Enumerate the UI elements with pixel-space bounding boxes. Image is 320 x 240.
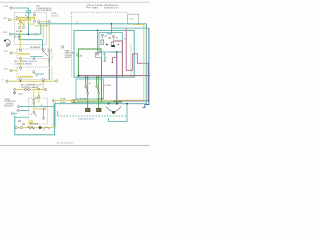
yellow bus Y2 xyxy=(16,89,45,91)
pin circle xyxy=(43,117,45,119)
resistor zigzag xyxy=(28,126,35,129)
switch pin 2 xyxy=(96,86,98,88)
svg-text:S: S xyxy=(31,114,32,116)
Y1 right connector xyxy=(55,80,57,82)
A/C compressor relay box xyxy=(99,33,122,53)
pigtail coil xyxy=(37,88,40,90)
wire teal riser to main xyxy=(37,24,41,34)
svg-text:MODULE: MODULE xyxy=(5,106,14,108)
teal drop to 2b xyxy=(48,52,50,68)
pin circle bottom xyxy=(42,78,44,80)
Y1 left connector xyxy=(6,80,8,82)
svg-text:C176: C176 xyxy=(3,18,7,20)
yellow long bottom wire xyxy=(55,100,144,128)
yellow drop 2 xyxy=(38,90,40,104)
teal vertical into connector xyxy=(97,30,99,52)
switch green wire 2b xyxy=(98,77,100,108)
svg-text:87: 87 xyxy=(116,37,118,39)
wire color speck labels xyxy=(14,31,126,116)
ground symbol 2 xyxy=(97,108,101,111)
svg-text:BLOCK: BLOCK xyxy=(52,15,59,17)
junction dots on Y1 xyxy=(20,80,22,82)
svg-text:FUSE BLOCK: FUSE BLOCK xyxy=(104,8,118,10)
header circled numeral xyxy=(87,5,90,8)
relay dark contact xyxy=(112,45,115,47)
connector circle left xyxy=(10,52,12,54)
svg-text:C176: C176 xyxy=(3,32,7,34)
svg-text:DK GRN: DK GRN xyxy=(97,99,104,101)
relay switch blade xyxy=(43,51,48,56)
switch blade xyxy=(34,73,38,77)
yellow drop from valve to relay xyxy=(19,30,21,49)
dashed teal hidden wire xyxy=(57,111,59,116)
relay 2a dashed box xyxy=(17,49,52,59)
switch green wire 1b xyxy=(87,77,89,108)
purple wire junction dot xyxy=(116,51,118,53)
teal drop from main wire xyxy=(111,24,113,34)
teal pin drop xyxy=(104,52,106,60)
junction dot purple xyxy=(116,103,118,105)
connector labels left column xyxy=(2,6,8,81)
PCM bottom pin dots xyxy=(85,77,86,78)
compressor control valve dashed box xyxy=(15,12,47,44)
purple wire vertical xyxy=(116,52,118,104)
yellow bus Y1 xyxy=(8,80,55,82)
junction dot xyxy=(28,33,30,35)
pressure switch box xyxy=(76,79,104,99)
connector circle xyxy=(38,21,40,23)
teal branch wire C xyxy=(112,27,149,29)
yellow jog wire xyxy=(35,25,50,27)
small ground glyph xyxy=(13,93,16,95)
switch green wire 2a xyxy=(96,77,98,86)
Y1-Y2 link xyxy=(42,81,44,89)
teal lower branch wire xyxy=(19,34,42,50)
junction dot xyxy=(111,23,113,25)
svg-text:G109 G110 S171: G109 G110 S171 xyxy=(78,119,95,121)
yellow drop from long wire xyxy=(53,127,55,129)
teal interior wire xyxy=(16,116,29,118)
svg-text:LO PRES: LO PRES xyxy=(104,85,111,87)
yellow stub xyxy=(12,70,17,72)
page top border xyxy=(0,1,150,3)
svg-text:LT GRN: LT GRN xyxy=(60,99,67,101)
pin circle xyxy=(19,49,21,51)
pin circle xyxy=(34,20,36,22)
connector pin left xyxy=(8,19,10,21)
svg-text:C129: C129 xyxy=(4,69,8,71)
Y2 left circle xyxy=(13,88,15,90)
svg-text:A/C Circuit Diagram: A/C Circuit Diagram xyxy=(57,142,73,145)
green hat wire xyxy=(78,49,101,76)
purple wire horizontal xyxy=(114,100,149,102)
svg-text:DK GRN/WHT: DK GRN/WHT xyxy=(30,47,40,49)
fuse block dashed top edge xyxy=(71,11,127,13)
yellow parallel drop xyxy=(52,100,54,127)
teal stub b xyxy=(19,109,29,111)
switch blade 2 xyxy=(97,87,99,93)
pin circle xyxy=(33,14,35,16)
relay switch pin xyxy=(112,35,114,37)
yellow drops into module xyxy=(33,90,35,104)
junction dot on PCM top xyxy=(97,30,99,32)
switch pin 2b xyxy=(98,92,100,94)
teal internal drop xyxy=(43,109,45,118)
pin circle 2a bottom xyxy=(20,58,22,60)
junction dot xyxy=(108,103,110,105)
relay interior specks xyxy=(106,44,108,45)
yellow stub xyxy=(12,52,17,54)
svg-text:C2: C2 xyxy=(48,61,50,63)
cup arc component xyxy=(106,107,121,112)
pin circle xyxy=(33,102,35,104)
wire teal from C1 xyxy=(12,8,28,11)
compressor pin xyxy=(6,43,8,45)
valve internal contact xyxy=(20,22,24,26)
green internal 2b xyxy=(48,68,50,80)
switch blade 1 xyxy=(86,87,88,93)
switch pin 1b xyxy=(87,92,89,94)
pin circle xyxy=(19,67,21,69)
pin circle 2a bottom b xyxy=(33,58,35,60)
in-line connector on green xyxy=(72,100,75,103)
svg-text:YEL: YEL xyxy=(35,98,38,100)
module yellow internal v xyxy=(33,103,35,112)
wire far right rail xyxy=(143,28,149,108)
pin circle xyxy=(23,27,25,29)
teal stub c xyxy=(14,113,17,115)
relay pin stub xyxy=(107,33,112,35)
junction dot xyxy=(53,100,55,102)
relay pin stub 2 xyxy=(113,38,115,42)
svg-text:VALVE: VALVE xyxy=(65,56,72,59)
teal connector circle c xyxy=(11,113,13,115)
pin circle xyxy=(23,123,25,125)
cup dark detail xyxy=(112,111,115,114)
valve yellow cross xyxy=(28,23,34,25)
relay 2b dashed box xyxy=(17,67,52,80)
svg-text:BLOWER: BLOWER xyxy=(30,124,39,126)
svg-text:DK BLU: DK BLU xyxy=(60,102,67,104)
yellow drop wire 2 xyxy=(48,23,50,50)
svg-text:86: 86 xyxy=(105,36,107,38)
yellow fuse exit wire xyxy=(133,25,144,101)
connector C1 top left xyxy=(10,7,12,9)
valve yellow mid vertical xyxy=(23,20,25,28)
dark element xyxy=(39,126,42,128)
pin circle bottom xyxy=(19,78,21,80)
svg-text:CONTROL VALVE: CONTROL VALVE xyxy=(21,86,39,89)
connector circle xyxy=(48,21,50,23)
module yellow lower cluster xyxy=(29,121,34,125)
control head inner yellow wire xyxy=(16,127,53,129)
splice dot xyxy=(112,62,113,63)
Y2 right circle xyxy=(45,88,47,90)
pin row bottom xyxy=(19,27,21,29)
green wire long vertical xyxy=(101,58,103,102)
main teal wire across top xyxy=(38,23,146,25)
pin circle xyxy=(48,49,50,51)
teal stub at relay bottom xyxy=(110,51,122,53)
switch green wire 1a xyxy=(85,77,87,86)
in-line connector on yellow pair xyxy=(39,21,49,23)
leader line xyxy=(33,10,37,13)
valve internal yellow wire xyxy=(17,17,35,19)
teal internal wire xyxy=(36,73,44,75)
arc element xyxy=(44,127,50,130)
svg-text:C1: C1 xyxy=(76,22,78,24)
valve yellow branch vertical xyxy=(19,18,21,28)
svg-text:RELAY: RELAY xyxy=(76,55,83,58)
yellow drop wire 1 xyxy=(42,22,44,39)
pin circle xyxy=(42,49,44,51)
fuse box (top right) xyxy=(128,14,139,24)
svg-text:S102: S102 xyxy=(19,94,23,96)
in-line connector xyxy=(35,33,37,35)
pin circle xyxy=(19,120,21,122)
relay pin stub 1 xyxy=(101,36,103,40)
connector circle left xyxy=(10,69,12,71)
pin circle xyxy=(20,127,22,129)
relay coil body xyxy=(101,40,104,45)
junction dot xyxy=(126,103,128,105)
valve internal yellow wire 2 xyxy=(17,19,32,21)
teal wire through module xyxy=(20,106,55,108)
svg-text:TIMES: TIMES xyxy=(92,7,99,9)
connector half xyxy=(75,100,78,103)
A/C control head teal box xyxy=(15,104,55,135)
teal rail right xyxy=(145,24,147,104)
relay switch body xyxy=(111,42,114,47)
fuse element xyxy=(25,89,27,91)
pin circle xyxy=(38,96,40,98)
pin circle xyxy=(15,127,17,129)
wire yellow stub xyxy=(11,19,17,21)
footer rule xyxy=(0,145,150,147)
connector circle left mid xyxy=(9,33,11,35)
valve internal yellow riser xyxy=(34,15,36,22)
module yellow internal xyxy=(34,108,44,110)
junction dot green tap xyxy=(78,75,80,77)
maroon splice hook xyxy=(112,58,117,62)
pin circle xyxy=(104,60,106,62)
pin circle xyxy=(33,99,35,101)
cup component bracket xyxy=(109,104,127,122)
teal connector circle a xyxy=(17,106,19,108)
svg-text:CONTROL RELAY: CONTROL RELAY xyxy=(15,63,33,66)
in-line connector circle xyxy=(61,46,63,48)
svg-text:B: B xyxy=(41,105,42,107)
svg-text:C129: C129 xyxy=(4,51,8,53)
valve teal internal drop xyxy=(27,13,29,34)
maroon PCM bottom wire xyxy=(78,75,123,77)
svg-text:C176: C176 xyxy=(4,6,8,8)
relay coil pin xyxy=(101,34,103,36)
teal internal segment xyxy=(30,56,43,58)
relay coil wire xyxy=(18,53,30,55)
valve yellow branch vertical 2 xyxy=(27,18,29,24)
maroon wire from relay xyxy=(114,40,123,42)
pink traced wire xyxy=(126,28,148,101)
maroon wire vertical and exit xyxy=(122,41,150,76)
svg-text:DK GRN: DK GRN xyxy=(16,31,23,33)
switch pin 1 xyxy=(85,86,87,88)
teal connector box xyxy=(27,11,31,13)
svg-text:30: 30 xyxy=(124,39,126,41)
yellow drop to 2b xyxy=(20,59,22,68)
ground pigtail under Y2 xyxy=(14,91,16,93)
pin circle xyxy=(33,71,35,73)
wire teal clutch feed lower xyxy=(12,33,35,35)
PCM teal box xyxy=(74,30,134,77)
module dashed box xyxy=(29,98,48,124)
fuse block inner dashed divider xyxy=(130,44,132,76)
pin circle xyxy=(33,112,35,114)
svg-text:C1: C1 xyxy=(105,58,107,60)
svg-text:DK GRN: DK GRN xyxy=(80,99,87,101)
svg-text:CLUTCH VALVE: CLUTCH VALVE xyxy=(37,9,53,12)
yellow internal wire xyxy=(18,76,33,78)
connector component xyxy=(96,53,102,58)
pin circle xyxy=(27,17,29,19)
fuse block dashed left edge xyxy=(70,12,72,77)
connector pin circle xyxy=(96,53,98,55)
compressor dark detail xyxy=(4,40,6,42)
compressor body symbol xyxy=(5,39,11,46)
ground symbol 1 xyxy=(86,108,90,111)
pin circle xyxy=(44,108,46,110)
teal connector circle b xyxy=(17,109,19,111)
pin circle xyxy=(16,17,18,19)
green bottom wire xyxy=(78,101,122,103)
teal long bottom wire xyxy=(55,103,147,105)
switch blade xyxy=(34,113,37,117)
pin circle xyxy=(19,21,21,23)
